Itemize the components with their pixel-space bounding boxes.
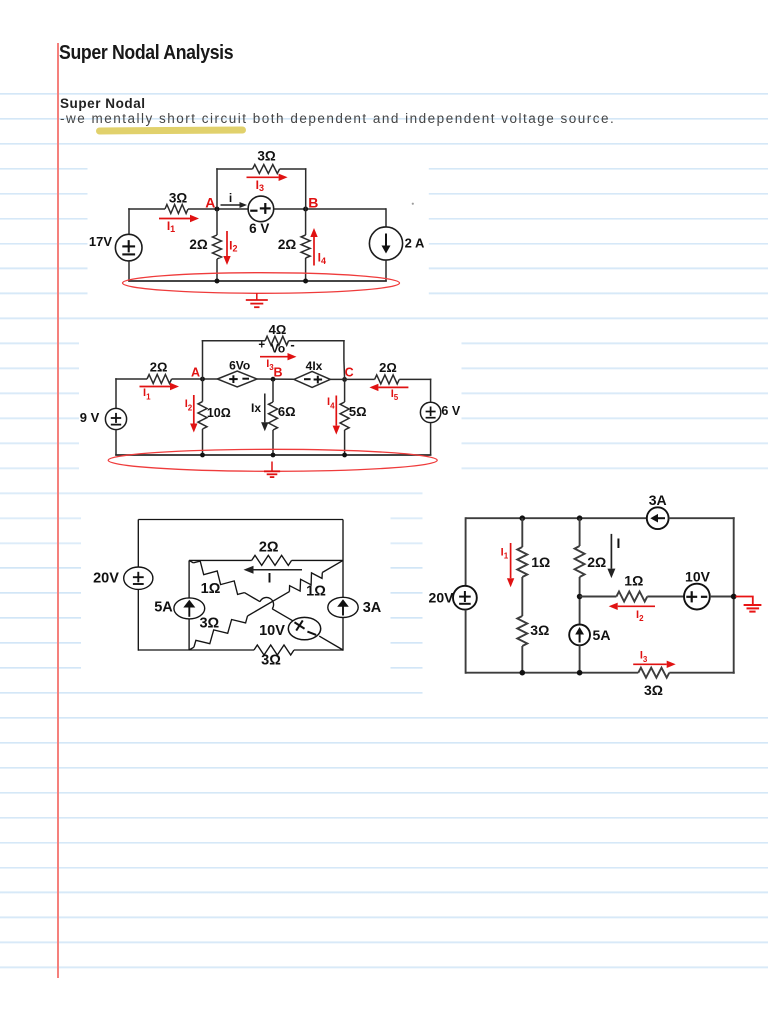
page title	[59, 42, 233, 65]
arrow I2 circuit4 (red, left)	[618, 605, 655, 607]
wire: B branch resistor to bottom	[305, 258, 307, 281]
body sentence	[60, 111, 615, 126]
wire: circuit3 inner left vertical top segment	[188, 560, 190, 597]
arrow I3 (red, right)	[247, 176, 279, 178]
resistor 3 ohm (circuit4 bottom)	[638, 668, 669, 678]
wire: circuit2 bottom ground wire	[115, 454, 431, 456]
svg-text:4Ω: 4Ω	[269, 322, 287, 337]
resistor 3 ohm (circuit4 branch1 lower)	[517, 616, 527, 646]
svg-text:20V: 20V	[429, 590, 455, 606]
svg-text:3A: 3A	[363, 600, 382, 616]
resistor 10 ohm	[198, 402, 207, 429]
arrow I4 (red, up)	[313, 237, 315, 266]
junction dot bottom of A branch	[215, 279, 220, 284]
junction dot mid right	[731, 594, 737, 600]
voltage source 20V circuit4 (circle with plus-minus)	[453, 586, 477, 610]
svg-text:3Ω: 3Ω	[257, 149, 276, 164]
wire: mid 1 ohm to 10V source	[647, 596, 684, 598]
wire: branch1 to bottom	[521, 646, 523, 673]
ground symbol (red) circuit4	[736, 597, 753, 606]
svg-text:2Ω: 2Ω	[379, 360, 397, 375]
resistor 2 ohm (left)	[147, 375, 172, 384]
svg-text:4Ix: 4Ix	[306, 359, 323, 373]
resistor 1 ohm (circuit3 top-left diagonal)	[189, 560, 193, 563]
white background of circuit 4 image	[423, 491, 768, 706]
heading Super Nodal	[60, 96, 146, 111]
wire: top branch horizontal right	[289, 340, 345, 342]
svg-text:2Ω: 2Ω	[278, 237, 297, 252]
svg-text:2Ω: 2Ω	[587, 554, 606, 570]
wire: circuit4 bottom right of 3 ohm	[669, 672, 734, 674]
node B junction dot circuit2	[271, 377, 276, 382]
svg-text:A: A	[191, 365, 200, 379]
wire: mid horizontal to 1 ohm	[580, 596, 617, 598]
svg-text:6 V: 6 V	[441, 404, 460, 418]
wire: 6ohm to bottom	[272, 430, 274, 455]
wire: branch2 top to 2 ohm	[579, 518, 581, 546]
resistor 2 ohm (circuit3 inner top)	[252, 555, 292, 565]
svg-text:17V: 17V	[89, 234, 112, 249]
wire: top branch vertical above node A	[202, 340, 204, 379]
red ellipse highlighting ground net of circuit 1	[123, 273, 400, 294]
wire: circuit3 outer rectangle top	[138, 519, 343, 521]
resistor 2 ohm (right)	[375, 375, 400, 384]
wire: top branch horizontal right segment	[280, 168, 307, 170]
resistor 3 ohm (left, horizontal)	[165, 205, 188, 214]
wire: hop to 10V source	[272, 609, 293, 621]
arrow I3 circuit4 (red, right)	[633, 663, 667, 665]
svg-text:5Ω: 5Ω	[349, 404, 367, 419]
svg-text:C: C	[345, 365, 354, 379]
wire: 10V source to right vertical	[710, 596, 734, 598]
wire: circuit2 left vertical bottom segment	[115, 430, 117, 456]
svg-text:10V: 10V	[685, 569, 711, 585]
junction dot branch1 top	[520, 515, 526, 521]
ground symbol (red) circuit 2	[271, 462, 273, 472]
arrow I circuit4 (black, down)	[610, 534, 612, 569]
resistor 2 ohm (below node A)	[213, 235, 222, 259]
wire: right vertical top segment circuit2	[430, 379, 432, 403]
voltage source 9V (circle with plus-minus)	[105, 408, 126, 429]
diagonal branch top-right to bottom-left with 1 ohm and 3 ohm	[322, 560, 343, 572]
junction dot branch1 bottom	[520, 670, 526, 676]
junction dot bottom of B branch	[303, 279, 308, 284]
wire: node C to 2ohm right resistor	[330, 378, 374, 380]
svg-text:i: i	[229, 191, 232, 205]
resistor 1 ohm (circuit4 mid)	[616, 592, 647, 602]
svg-text:B: B	[273, 366, 282, 380]
voltage source 17V (circle with plus-minus)	[115, 234, 142, 261]
svg-text:Vo: Vo	[271, 341, 285, 355]
stray mark	[412, 203, 414, 205]
svg-text:3Ω: 3Ω	[199, 615, 219, 631]
wire: branch2 5A to bottom	[579, 645, 581, 672]
voltage source 6V (circle with minus-plus)	[248, 196, 274, 222]
arrow I1 circuit2 (red, right)	[140, 386, 171, 388]
wire: circuit2 left vertical top segment	[115, 378, 117, 408]
wire: circuit4 left vertical bottom segment	[465, 610, 467, 674]
resistor 1 ohm (circuit3 top-right diagonal)	[289, 573, 322, 592]
white background of circuit 2 image	[79, 321, 462, 485]
wire: circuit3 bottom left segment	[138, 649, 254, 651]
svg-text:20V: 20V	[93, 570, 119, 586]
svg-text:B: B	[308, 194, 318, 210]
node C junction dot circuit2	[342, 377, 347, 382]
resistor 6 ohm	[269, 402, 278, 430]
wire: circuit1 main horizontal left of resistor	[128, 208, 165, 210]
wire: right vertical bottom segment	[385, 260, 387, 281]
current source 2A (circle with down arrow)	[369, 227, 402, 260]
wire: branch1 between resistors	[521, 577, 523, 616]
resistor 3 ohm (circuit3 bottom-left diagonal)	[194, 616, 248, 647]
svg-text:5A: 5A	[593, 627, 611, 643]
red margin line	[57, 43, 59, 978]
wire: node C down to 5ohm	[344, 379, 346, 402]
svg-text:-: -	[290, 337, 294, 352]
svg-text:1Ω: 1Ω	[624, 572, 643, 588]
wire: straight through crossing	[248, 592, 290, 616]
wire: node B down to resistor	[305, 209, 307, 235]
current source 5A circuit3 (ellipse with up arrow)	[174, 598, 205, 619]
resistor 3 ohm (top branch)	[253, 165, 280, 174]
arrow I2 (red, down)	[226, 231, 228, 256]
junction dot bottom A branch circuit2	[200, 453, 205, 458]
resistor 2 ohm (circuit4 branch2)	[575, 546, 585, 577]
wire: circuit3 outer left vertical top segment	[137, 520, 139, 568]
resistor 2 ohm (below node B)	[301, 235, 310, 258]
svg-text:1Ω: 1Ω	[306, 583, 326, 599]
svg-text:2 A: 2 A	[405, 236, 425, 251]
plus symbol rotated inside 10V source	[291, 617, 308, 634]
current source 3A circuit4 (circle with left arrow)	[647, 507, 669, 529]
arrow I circuit3 (black, left)	[254, 569, 303, 571]
svg-text:6 V: 6 V	[249, 221, 269, 236]
svg-text:2Ω: 2Ω	[150, 360, 168, 375]
wire: right vertical top segment	[385, 208, 387, 227]
dependent source 6Vo (diamond)	[217, 371, 257, 387]
arrow I3 circuit2 (red, right)	[260, 356, 288, 358]
wire: circuit4 top wire left of 3A source	[466, 517, 647, 519]
junction dot bottom B branch circuit2	[271, 453, 276, 458]
wire: node A down to 10ohm	[202, 379, 204, 402]
resistor 3 ohm (circuit3 bottom)	[254, 645, 294, 655]
wire: circuit3 inner top right segment	[292, 559, 343, 561]
crossover hop arc (no connection)	[260, 597, 274, 608]
node A junction dot	[215, 207, 220, 212]
wire: diagonal tail to bottom-left corner	[189, 647, 194, 650]
wire: top branch left vertical from node A	[216, 168, 218, 208]
white background of circuit 1 image	[88, 147, 429, 312]
current source 5A circuit4 (circle with up arrow)	[569, 625, 590, 646]
wire: circuit3 outer right vertical top segment	[342, 520, 344, 598]
svg-text:1Ω: 1Ω	[201, 581, 221, 597]
wire: circuit3 inner left vertical bottom segment	[188, 619, 190, 650]
junction dot branch2 bottom	[577, 670, 583, 676]
yellow highlighter stroke	[96, 127, 246, 135]
wire: circuit3 outer left vertical bottom segment	[137, 589, 139, 650]
wire: circuit4 bottom left of 3 ohm	[466, 672, 639, 674]
arrow I1 circuit4 (red, down)	[510, 543, 512, 578]
voltage source 10V circuit3 (ellipse, diagonal)	[288, 617, 320, 639]
svg-text:Ix: Ix	[251, 401, 261, 415]
voltage source 10V circuit4 (circle with plus-minus horizontal)	[684, 584, 710, 610]
wire: top branch right vertical down to node B	[305, 168, 307, 209]
svg-text:3Ω: 3Ω	[530, 622, 549, 638]
node B junction dot	[303, 207, 308, 212]
wire: circuit3 outer right vertical bottom segment	[342, 618, 344, 651]
svg-text:6Ω: 6Ω	[278, 404, 296, 419]
wire: 10V source to bottom-right corner	[319, 636, 343, 650]
svg-text:3Ω: 3Ω	[644, 682, 663, 698]
wire: right vertical bottom segment circuit2	[430, 423, 432, 456]
wire: branch2 resistor to mid node	[579, 577, 581, 625]
wire: resistor to node A	[172, 378, 218, 380]
wire: main horizontal from resistor to 6V source	[188, 208, 248, 210]
junction dot branch2 top	[577, 515, 583, 521]
svg-text:5A: 5A	[154, 600, 173, 616]
resistor 5 ohm	[340, 402, 349, 430]
wire: top branch horizontal left	[202, 340, 266, 342]
svg-text:A: A	[205, 194, 215, 210]
node A junction dot circuit2	[200, 377, 205, 382]
arrow I4 circuit2 (red, down)	[335, 396, 337, 426]
wire: circuit1 left vertical bottom segment	[128, 261, 130, 282]
arrow I5 (red, left)	[378, 386, 408, 388]
wire: circuit4 left vertical top segment	[465, 517, 467, 586]
svg-text:1Ω: 1Ω	[531, 554, 550, 570]
wire: 5ohm to bottom	[344, 430, 346, 455]
minus symbol rotated inside 10V source	[307, 632, 316, 635]
svg-text:10Ω: 10Ω	[207, 406, 231, 420]
junction dot branch2 mid node	[577, 594, 583, 600]
svg-text:3Ω: 3Ω	[169, 191, 188, 206]
wire: main horizontal to 2ohm resistor	[115, 378, 147, 380]
wire: diamond to node B	[257, 378, 294, 380]
wire: top branch vertical down to node C	[343, 340, 345, 360]
svg-text:+: +	[258, 340, 265, 352]
svg-text:I: I	[268, 570, 272, 585]
wire: top branch horizontal left segment	[216, 168, 252, 170]
ground symbol (red) circuit 1	[256, 293, 258, 300]
svg-text:2Ω: 2Ω	[259, 539, 279, 555]
wire: branch1 top to 1 ohm	[521, 518, 523, 547]
wire: node B down to 6ohm	[272, 379, 274, 402]
wire: circuit3 inner top left segment	[189, 559, 252, 561]
svg-text:3Ω: 3Ω	[261, 653, 281, 669]
red ellipse highlighting ground net of circuit 2	[108, 449, 437, 471]
voltage source 6V circuit2 (circle with plus-minus)	[420, 402, 440, 422]
wire: main horizontal from 6V to node B and right	[274, 208, 386, 210]
svg-text:I: I	[617, 535, 621, 551]
current source 3A circuit3 (ellipse with up arrow)	[328, 597, 358, 617]
svg-text:3A: 3A	[649, 492, 667, 508]
svg-text:2Ω: 2Ω	[189, 237, 208, 252]
arrow Ix (black, down)	[264, 394, 266, 423]
voltage source 20V circuit3 (ellipse with plus-minus)	[124, 567, 153, 589]
arrow i (black, toward 6V source)	[221, 204, 240, 206]
resistor 1 ohm (circuit4 branch1 upper)	[517, 547, 527, 577]
wire: right resistor to right vertical	[399, 378, 431, 380]
wire: circuit4 right vertical	[733, 517, 735, 673]
wire: node A down to resistor	[216, 209, 218, 235]
resistor 4 ohm (top branch)	[265, 336, 288, 345]
svg-text:10V: 10V	[259, 623, 285, 639]
wire: 10ohm to bottom	[202, 429, 204, 455]
wire: circuit4 top wire right of 3A source	[669, 517, 735, 519]
arrow I2 circuit2 (red, down)	[193, 395, 195, 424]
wire: diagonal to crossover hop	[244, 593, 260, 602]
junction dot bottom C branch circuit2	[342, 453, 347, 458]
white background of circuit 3 image	[81, 512, 391, 680]
wire: circuit1 bottom ground wire	[128, 280, 387, 282]
dependent source 4Ix (diamond)	[294, 371, 330, 387]
wire: circuit1 left vertical top segment	[128, 208, 130, 234]
wire: A branch resistor to bottom	[216, 259, 218, 281]
svg-text:6Vo: 6Vo	[229, 358, 250, 372]
svg-text:9 V: 9 V	[80, 410, 100, 425]
wire: circuit3 bottom right segment	[294, 649, 343, 651]
arrow I1 (red, right)	[159, 218, 190, 220]
